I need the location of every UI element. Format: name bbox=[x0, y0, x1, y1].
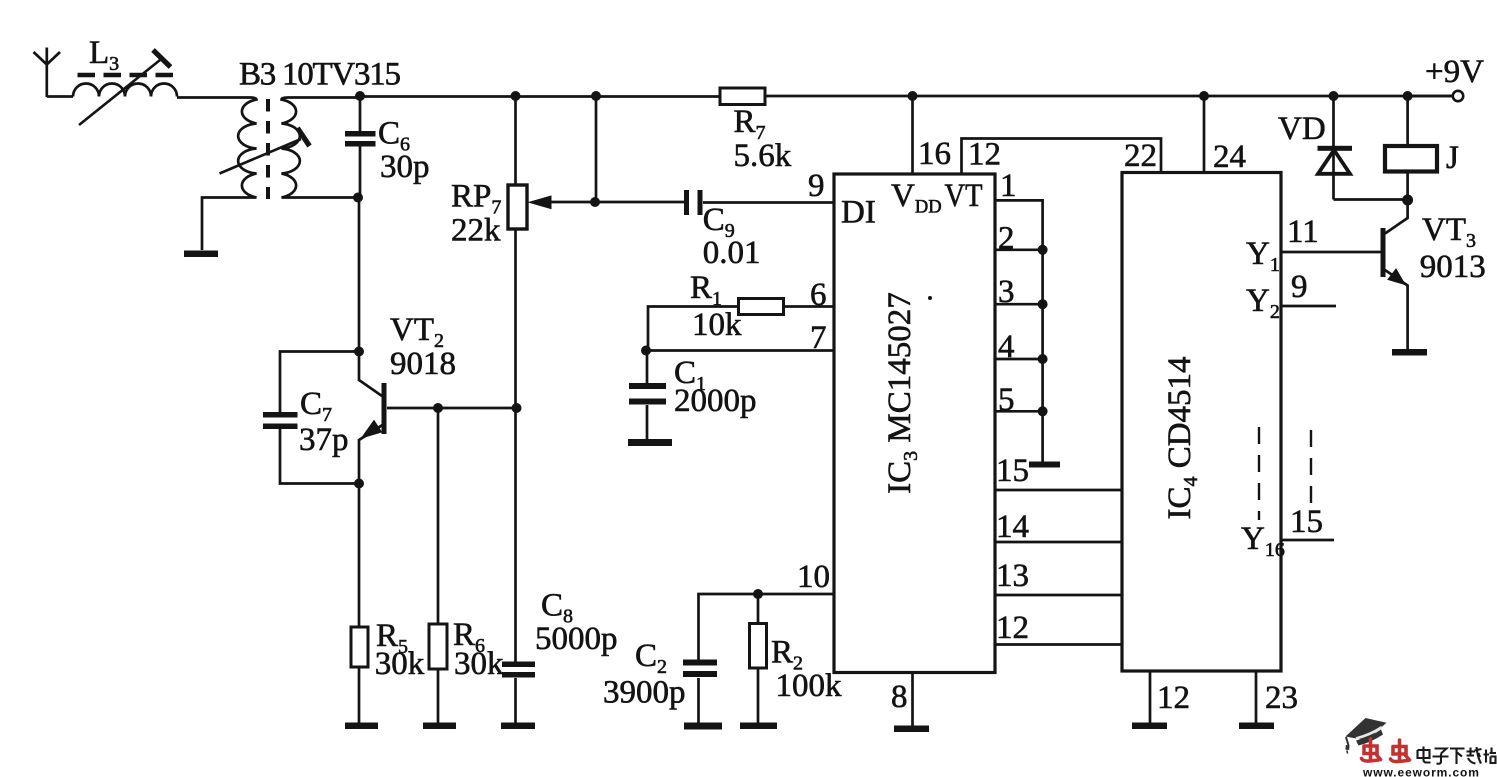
wire IC3 pin16 bbox=[911, 96, 914, 174]
diode VD branch wires bbox=[1334, 96, 1408, 200]
svg-text:12: 12 bbox=[968, 137, 1001, 173]
svg-text:24: 24 bbox=[1213, 139, 1246, 175]
watermark graduation cap board bbox=[1346, 718, 1387, 741]
ground (VT3) bbox=[1392, 349, 1427, 356]
junction node RP7 top on rail bbox=[511, 91, 521, 101]
transistor VT2 emitter arrowhead bbox=[362, 421, 382, 439]
watermark red worm character 2 bbox=[1391, 740, 1410, 762]
svg-text:1: 1 bbox=[1000, 168, 1017, 204]
svg-text:3: 3 bbox=[998, 274, 1015, 310]
svg-text:9: 9 bbox=[1291, 269, 1308, 305]
ground (R6) bbox=[423, 723, 456, 730]
transformer B3 adjust arrow bbox=[220, 139, 302, 174]
VT3 emitter wire bbox=[1385, 270, 1408, 349]
junction node chain pin3 bbox=[1038, 299, 1048, 309]
ground bar (pins 1-5 chain) bbox=[1029, 462, 1060, 468]
svg-text:22: 22 bbox=[1124, 138, 1157, 174]
ground (C2) bbox=[684, 723, 722, 730]
svg-text:100k: 100k bbox=[776, 668, 843, 704]
junction node chain pin2 bbox=[1038, 245, 1048, 255]
transistor VT2 base bar bbox=[382, 383, 387, 434]
watermark text dian (电) bbox=[1418, 747, 1431, 763]
wire RP7 wiper from C9 node bbox=[549, 96, 596, 202]
svg-text:VD: VD bbox=[1278, 111, 1326, 147]
ground (transformer B3) bbox=[184, 251, 218, 258]
svg-text:9013: 9013 bbox=[1420, 249, 1486, 285]
svg-text:2: 2 bbox=[998, 221, 1015, 257]
junction node pin10 / R2 bbox=[753, 589, 763, 599]
svg-text:7: 7 bbox=[810, 320, 827, 356]
potentiometer RP7 body bbox=[508, 185, 527, 229]
svg-text:16: 16 bbox=[918, 136, 951, 172]
resistor R6 bbox=[429, 624, 447, 669]
ground (IC3 pin8) bbox=[894, 726, 929, 733]
svg-text:9018: 9018 bbox=[390, 346, 456, 382]
wire C1 branch bbox=[646, 351, 649, 440]
wire IC4 pin12 to ground bbox=[1149, 671, 1152, 723]
junction node pin16 on rail bbox=[908, 91, 918, 101]
wire IC4 pin23 to ground bbox=[1255, 671, 1258, 723]
wire R1 pin6 bbox=[784, 305, 834, 308]
resistor R2 bbox=[750, 624, 767, 669]
junction node VD on rail bbox=[1329, 91, 1339, 101]
wire IC3 pin12 to IC4 pin22 bbox=[962, 139, 1162, 175]
junction node wiper feed on rail bbox=[591, 91, 601, 101]
svg-text:4: 4 bbox=[998, 329, 1015, 365]
svg-text:DI: DI bbox=[841, 195, 876, 231]
watermark text zhan (站) bbox=[1484, 748, 1497, 764]
transistor VT3 emitter arrowhead bbox=[1388, 269, 1405, 285]
capacitor C1 plates bbox=[629, 383, 666, 389]
svg-text:VT: VT bbox=[945, 178, 983, 214]
resistor R5 bbox=[351, 627, 368, 667]
relay J coil bbox=[1385, 146, 1437, 172]
junction node pin24 on rail bbox=[1199, 91, 1209, 101]
diode VD bbox=[1318, 150, 1350, 174]
wire C2 to ground bbox=[697, 678, 700, 723]
svg-text:15: 15 bbox=[996, 453, 1029, 489]
svg-text:10k: 10k bbox=[692, 307, 742, 343]
wire R1 left leg bbox=[648, 307, 739, 351]
ground (C8) bbox=[501, 723, 535, 730]
IC3 MC145027 box bbox=[834, 174, 995, 673]
junction node C6 top on rail bbox=[355, 91, 365, 101]
L3 adjust arrow bbox=[79, 60, 160, 125]
svg-text:13: 13 bbox=[996, 558, 1029, 594]
ground (R5) bbox=[345, 723, 378, 730]
svg-text:6: 6 bbox=[810, 277, 827, 313]
wire IC3 pin3 bbox=[995, 303, 1043, 306]
wire IC3 pin1 bbox=[995, 200, 1043, 462]
svg-text:3900p: 3900p bbox=[603, 675, 686, 711]
VT3 collector wire bbox=[1385, 200, 1408, 234]
wire R2 branch bbox=[757, 594, 760, 723]
watermark text zai (载) bbox=[1467, 747, 1482, 764]
wire IC4 Y1 pin11 to VT3 base bbox=[1281, 251, 1381, 254]
resistor R7 bbox=[720, 88, 765, 105]
wire R6 branch bbox=[437, 408, 440, 723]
svg-text:9: 9 bbox=[808, 168, 825, 204]
ground (IC4 pin12) bbox=[1132, 723, 1167, 730]
wire VT2 base line bbox=[387, 407, 517, 410]
junction node VD / relay / VT3 collector bbox=[1402, 195, 1413, 206]
wire C6 bottom to VT2 collector bbox=[359, 198, 382, 397]
wire C9 right to IC3 pin9 bbox=[703, 201, 834, 204]
svg-text:5.6k: 5.6k bbox=[734, 138, 792, 174]
wire antenna to L3 bbox=[47, 95, 73, 98]
wire pin10 bbox=[699, 594, 835, 660]
capacitor C7 branch bbox=[280, 352, 359, 484]
svg-text:14: 14 bbox=[996, 509, 1029, 545]
dashed continuation line inside IC4 bbox=[1258, 427, 1260, 520]
wire VT2 emitter down to R5 bbox=[359, 424, 384, 627]
junction node C6 bottom bbox=[353, 193, 363, 203]
svg-text:30p: 30p bbox=[380, 149, 430, 185]
wire rail to +9V terminal bbox=[1408, 95, 1452, 98]
svg-text:23: 23 bbox=[1265, 680, 1298, 716]
junction node chain pin5 bbox=[1038, 406, 1048, 416]
wire RP7 to C8 bbox=[514, 229, 517, 662]
wire IC3 pin2 bbox=[995, 248, 1043, 251]
svg-text:15: 15 bbox=[1290, 504, 1323, 540]
relay J branch wires bbox=[1406, 96, 1409, 200]
transformer B3 primary winding bbox=[177, 98, 257, 251]
wire R5 to ground bbox=[358, 667, 361, 723]
resistor R1 bbox=[739, 299, 784, 315]
wire IC3 pin5 bbox=[995, 410, 1043, 413]
wire IC3 pin8 to ground bbox=[911, 673, 914, 727]
inductor L3 bbox=[73, 84, 177, 97]
wire RP7 column top bbox=[514, 96, 517, 185]
wire C9 left bbox=[595, 201, 684, 204]
svg-text:www.eeworm.com: www.eeworm.com bbox=[1362, 766, 1480, 777]
watermark red worm character 1 bbox=[1362, 739, 1381, 761]
IC4 CD4514 box bbox=[1122, 173, 1281, 672]
svg-text:10: 10 bbox=[797, 559, 830, 595]
svg-text:IC4 CD4514: IC4 CD4514 bbox=[1162, 356, 1202, 519]
svg-text:12: 12 bbox=[1157, 680, 1190, 716]
junction node R1 / C1 / pin7 bbox=[641, 346, 651, 356]
junction node VT2 collector / C7 top bbox=[354, 347, 364, 357]
transformer B3 core (dashed) bbox=[266, 99, 270, 199]
ground (R2) bbox=[740, 723, 777, 730]
watermark cap highlight slash bbox=[1356, 727, 1382, 739]
wire +9V rail right segment bbox=[765, 95, 1452, 98]
wire IC4 Y2 pin9 stub bbox=[1281, 305, 1336, 308]
svg-text:0.01: 0.01 bbox=[703, 235, 761, 271]
antenna bbox=[34, 48, 61, 98]
ground (C1) bbox=[628, 439, 672, 446]
svg-text:J: J bbox=[1446, 140, 1459, 176]
watermark text zi (子) bbox=[1433, 749, 1449, 764]
capacitor C6 plates bbox=[345, 131, 376, 137]
junction node wiper / C9 bbox=[590, 197, 600, 207]
wire IC4 Y16 pin15 stub bbox=[1281, 539, 1334, 542]
wire IC3 pin14 row to IC4 bbox=[995, 541, 1122, 544]
wire IC3 pin13 row to IC4 bbox=[995, 594, 1122, 597]
junction node base line / C8 column bbox=[512, 403, 522, 413]
svg-text:12: 12 bbox=[996, 610, 1029, 646]
capacitor C2 plates bbox=[683, 660, 717, 666]
wire pin7 bbox=[646, 349, 834, 352]
wire IC3 pin12 row to IC4 bbox=[995, 643, 1122, 646]
transformer B3 secondary winding bbox=[282, 98, 359, 198]
watermark cap crown bbox=[1356, 730, 1383, 746]
svg-text:+9V: +9V bbox=[1425, 54, 1484, 90]
wire C8 to ground bbox=[514, 678, 517, 723]
svg-text:IC3 MC145027: IC3 MC145027 bbox=[882, 292, 922, 494]
junction node chain pin4 bbox=[1038, 354, 1048, 364]
capacitor C9 plates bbox=[684, 190, 689, 215]
svg-text:B3 10TV315: B3 10TV315 bbox=[239, 57, 401, 93]
svg-text:22k: 22k bbox=[451, 213, 501, 249]
watermark text xia (下) bbox=[1450, 749, 1465, 765]
wire +9V rail left segment bbox=[358, 95, 720, 98]
svg-text:2000p: 2000p bbox=[674, 383, 757, 419]
L3 core (dashed) bbox=[78, 73, 177, 78]
ink speck inside IC3 bbox=[928, 296, 932, 300]
capacitor C6 branch wires bbox=[359, 96, 362, 198]
svg-text:30k: 30k bbox=[454, 646, 504, 682]
svg-text:5: 5 bbox=[998, 382, 1015, 418]
junction node VT2 emitter / C7 bottom bbox=[354, 479, 364, 489]
ground (IC4 pin23) bbox=[1239, 723, 1274, 730]
wire IC4 pin24 from rail bbox=[1203, 96, 1206, 173]
transistor VT3 base bar bbox=[1381, 228, 1386, 277]
wire IC3 pin4 bbox=[995, 358, 1043, 361]
terminal +9V bbox=[1453, 91, 1463, 101]
watermark cap tassel bbox=[1346, 737, 1349, 746]
junction node relay on rail bbox=[1403, 91, 1413, 101]
svg-text:11: 11 bbox=[1287, 214, 1319, 250]
svg-text:37p: 37p bbox=[299, 422, 349, 458]
wire IC3 pin15 row to IC4 bbox=[995, 489, 1122, 492]
svg-text:30k: 30k bbox=[375, 646, 425, 682]
capacitor C7 plates bbox=[263, 412, 298, 418]
dashed continuation line outside IC4 bbox=[1310, 430, 1312, 503]
svg-text:8: 8 bbox=[891, 679, 908, 715]
capacitor C8 plates bbox=[502, 662, 535, 668]
svg-text:5000p: 5000p bbox=[535, 621, 618, 657]
junction node base line / R6 bbox=[433, 403, 443, 413]
potentiometer RP7 wiper arrowhead bbox=[529, 196, 551, 209]
